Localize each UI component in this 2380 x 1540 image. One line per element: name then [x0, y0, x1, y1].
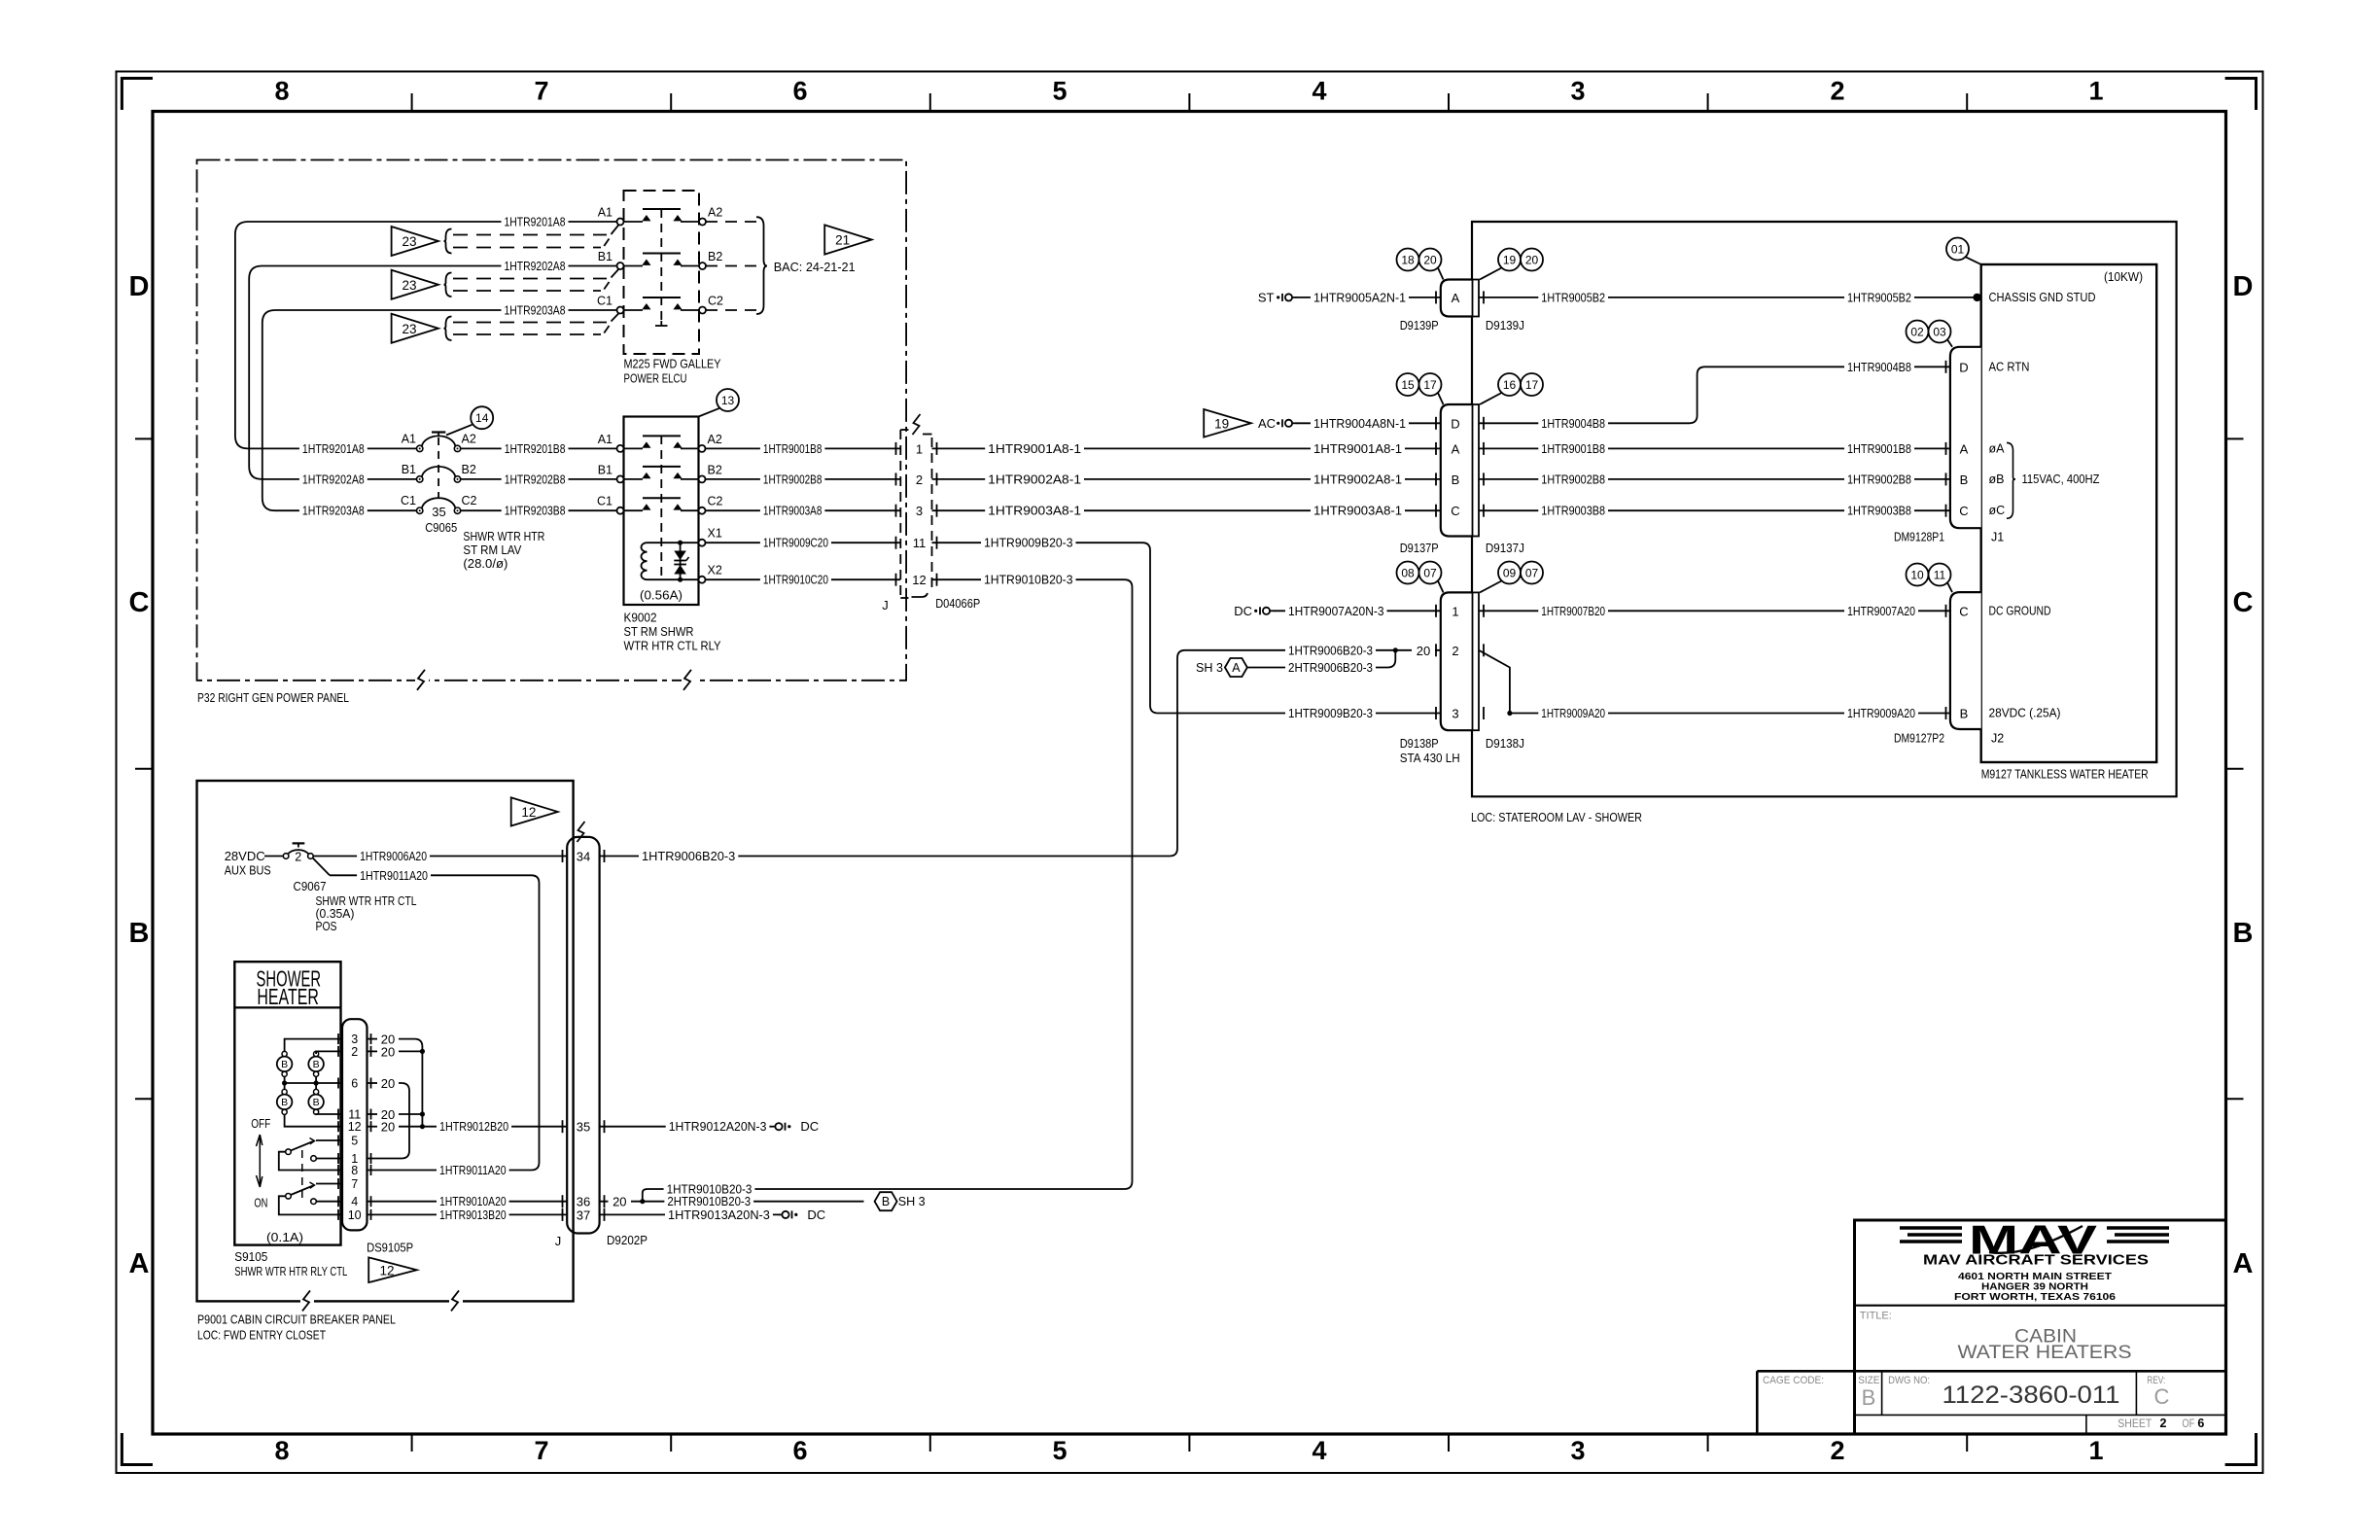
brace 115VAC 400HZ [2007, 442, 2100, 518]
svg-text:34: 34 [577, 850, 590, 864]
wire 1HTR9002B8 (D9137J B to heater phase B) [1479, 472, 1950, 487]
dashed wire M225 B2 to BAC bus [706, 265, 756, 267]
wire 2HTR9010B20-3 to flag B SH 3 [643, 1192, 926, 1210]
svg-text:1HTR9001A8-1: 1HTR9001A8-1 [1313, 441, 1402, 456]
svg-text:1HTR9009A20: 1HTR9009A20 [1541, 706, 1605, 720]
wire 1HTR9004A8N-1 (to D9137 D) [1296, 415, 1441, 431]
company address [1954, 1271, 2116, 1303]
brace for flag 23 (phase B) [444, 273, 452, 297]
svg-text:13: 13 [721, 394, 735, 407]
svg-text:5: 5 [1052, 77, 1067, 106]
svg-text:B2: B2 [708, 463, 722, 476]
svg-text:2: 2 [2160, 1417, 2167, 1430]
svg-text:X1: X1 [708, 527, 722, 541]
sheet-reference flag 12 (upper) [511, 797, 558, 825]
svg-text:14: 14 [475, 411, 489, 425]
svg-text:A: A [129, 1248, 150, 1279]
switch assembly SHOWER HEATER (box) [234, 962, 340, 1244]
svg-text:B: B [2233, 918, 2254, 949]
svg-text:P32 RIGHT GEN POWER PANEL: P32 RIGHT GEN POWER PANEL [197, 690, 349, 705]
svg-text:WATER HEATERS: WATER HEATERS [1958, 1343, 2132, 1363]
svg-text:OFF: OFF [251, 1116, 270, 1131]
M225 contact pole B1-B2 [598, 250, 723, 269]
wire 1HTR9005A2N-1 (to D9139 A) [1296, 290, 1441, 305]
svg-text:2: 2 [1830, 1436, 1844, 1465]
svg-text:1HTR9007A20: 1HTR9007A20 [1847, 604, 1915, 618]
switch gang dashed link [301, 1150, 303, 1198]
svg-text:STA 430 LH: STA 430 LH [1400, 751, 1460, 765]
svg-text:1HTR9006B20-3: 1HTR9006B20-3 [642, 849, 735, 863]
svg-text:B2: B2 [462, 463, 476, 476]
svg-text:MAV AIRCRAFT SERVICES: MAV AIRCRAFT SERVICES [1923, 1253, 2149, 1269]
callout circle 01 (heater) [1946, 238, 1981, 265]
svg-text:1HTR9002B8: 1HTR9002B8 [1847, 472, 1911, 486]
svg-text:4: 4 [1312, 77, 1326, 106]
svg-text:17: 17 [1525, 378, 1539, 392]
svg-text:1HTR9010B20-3: 1HTR9010B20-3 [984, 573, 1073, 587]
label BAC: 24-21-21 [774, 260, 856, 274]
sheet-reference flag 23 (phase C control) [392, 314, 438, 343]
sheet number SHEET 2 OF 6 [2117, 1417, 2204, 1430]
wire 1HTR9003B8 (D9137J C to heater phase C) [1479, 503, 1950, 518]
svg-text:B: B [1960, 472, 1969, 487]
svg-text:P9001 CABIN CIRCUIT BREAKER: P9001 CABIN CIRCUIT BREAKER PANEL [197, 1312, 396, 1327]
label M9127 TANKLESS WATER HEATER [1981, 767, 2149, 782]
svg-text:A: A [1452, 441, 1460, 456]
wire 1HTR9003A8 [706, 503, 901, 518]
wire 1HTR9002A8-1 (J pin2 to D9137 B) [932, 472, 1441, 487]
svg-text:øB: øB [1989, 472, 2005, 486]
svg-text:1HTR9201A8: 1HTR9201A8 [505, 215, 566, 229]
svg-text:1HTR9001B8: 1HTR9001B8 [1541, 441, 1605, 456]
toggle switch S9105 section 2 (pins 7/4/10) [279, 1182, 342, 1214]
svg-text:SH 3: SH 3 [898, 1194, 926, 1208]
svg-text:øA: øA [1989, 441, 2006, 455]
svg-text:ST RM LAV: ST RM LAV [463, 542, 521, 557]
svg-text:18: 18 [1401, 254, 1415, 267]
svg-text:A2: A2 [708, 206, 722, 220]
svg-text:D9202P: D9202P [607, 1233, 647, 1247]
svg-text:A2: A2 [708, 433, 722, 446]
connector D9139P/D9139J [1400, 280, 1524, 333]
wire 1HTR9013B20 (pin10 to pin37) [367, 1207, 568, 1222]
svg-text:OF: OF [2182, 1417, 2194, 1430]
svg-text:1HTR9002B8: 1HTR9002B8 [1541, 472, 1605, 486]
connector D9137P/D9137J [1400, 404, 1524, 555]
break symbol on P9001 lower edge [300, 1290, 314, 1312]
svg-text:1HTR9003B8: 1HTR9003B8 [1541, 504, 1605, 518]
indicator lamp left-bottom [277, 1089, 293, 1114]
svg-text:S9105: S9105 [234, 1249, 267, 1264]
DC shield termination [1234, 604, 1274, 618]
svg-text:CAGE CODE:: CAGE CODE: [1763, 1375, 1824, 1386]
dashed wire M225 C2 to BAC bus [706, 309, 756, 311]
svg-text:12: 12 [348, 1120, 362, 1134]
wire 1HTR9001B8 (D9137J A to heater phase A) [1479, 440, 1950, 456]
svg-text:1HTR9203A8: 1HTR9203A8 [302, 504, 365, 518]
wire 1HTR9202A8 loop (M225 B1 to C9065 B1) [249, 259, 616, 487]
label P9001 CABIN CIRCUIT BREAKER PANEL / LOC: FWD ENTRY CLOSET [197, 1312, 396, 1343]
wire 1HTR9006B20-3 (pin34 up to D9138 pin2 row) [600, 650, 1185, 864]
svg-text:20: 20 [612, 1195, 626, 1209]
svg-text:10: 10 [348, 1208, 362, 1222]
indicator lamp left-top [277, 1051, 293, 1076]
pin labels A1/A2 B1/B2 C1/C2 of C9065 [401, 432, 477, 507]
wire pin6 gauge 20 loop to pin1 [367, 1076, 410, 1159]
wire 1HTR9007B20 / 1HTR9007A20 (D9138J pin1 to heater DC GROUND) [1479, 603, 1950, 618]
K9002 contact pole B1-B2 [598, 463, 722, 482]
svg-text:AC RTN: AC RTN [1989, 360, 2030, 373]
svg-text:20: 20 [381, 1044, 395, 1059]
label LOC: STATEROOM LAV - SHOWER [1471, 810, 1642, 824]
label C9065 SHWR WTR HTR ST RM LAV (28.0/phase) [425, 520, 544, 571]
svg-text:8: 8 [274, 1436, 289, 1465]
svg-text:POWER ELCU: POWER ELCU [624, 371, 687, 386]
svg-text:23: 23 [402, 234, 416, 249]
wire 20 / junction at pin36 [600, 1194, 646, 1209]
svg-text:8: 8 [274, 77, 289, 106]
connector DS9105P (stadium) [342, 1019, 367, 1230]
svg-text:4: 4 [1312, 1436, 1326, 1465]
svg-text:C: C [1959, 604, 1968, 618]
svg-text:WTR HTR CTL RLY: WTR HTR CTL RLY [624, 639, 721, 653]
svg-text:B2: B2 [708, 250, 722, 263]
wire pin6 lamp midpoint bus [282, 1076, 342, 1089]
svg-text:1HTR9202A8: 1HTR9202A8 [505, 259, 566, 273]
sheet-reference flag 21 [824, 225, 871, 254]
sheet-reference flag 23 (phase B control) [392, 270, 438, 299]
svg-text:17: 17 [1423, 378, 1437, 392]
svg-text:2HTR9006B20-3: 2HTR9006B20-3 [1288, 660, 1373, 675]
svg-text:07: 07 [1525, 567, 1539, 580]
svg-text:23: 23 [402, 322, 416, 336]
wire pin2 gauge 20 to loop junction [367, 1044, 426, 1059]
M225 contact pole C1-C2 [597, 295, 723, 314]
drawing number 1122-3860-011 [1942, 1382, 2120, 1409]
svg-text:7: 7 [534, 77, 548, 106]
wire 2HTR9006B20-3 (joins 1HTR9006B20-3) [1247, 650, 1395, 676]
wire 1HTR9003A8-1 (J pin3 to D9137 C) [932, 503, 1441, 518]
callout circles 18 20 (D9139P) [1397, 249, 1444, 280]
connector plug DM9128P1 (heater J1) [1894, 347, 2004, 544]
svg-text:1: 1 [916, 441, 923, 456]
svg-text:10: 10 [1910, 569, 1924, 582]
label K9002 ST RM SHWR WTR HTR CTL RLY [624, 611, 721, 653]
svg-text:1HTR9002A8-1: 1HTR9002A8-1 [988, 472, 1081, 486]
M225 internal actuator dashed line and ground [655, 209, 668, 326]
svg-text:8: 8 [351, 1164, 358, 1177]
svg-text:1HTR9007B20: 1HTR9007B20 [1541, 604, 1605, 618]
svg-text:K9002: K9002 [624, 611, 657, 625]
wire 1HTR9202B8 [461, 472, 617, 487]
labels C9067 SHWR WTR HTR CTL (0.35A) POS [294, 879, 417, 933]
wire 1HTR9010B20-3 (J pin12 down to D9202P area) [756, 572, 1133, 1189]
svg-text:4: 4 [351, 1195, 358, 1208]
svg-text:2: 2 [1452, 644, 1458, 658]
K9002 actuator dashed line [660, 436, 662, 579]
svg-text:7: 7 [534, 1436, 548, 1465]
wire 1HTR9006A20 (C9067 to D9202P pin 34) [313, 849, 567, 864]
svg-text:A1: A1 [598, 206, 612, 220]
dashed control wires to M225 switch actuator (phase C) [453, 314, 618, 335]
svg-text:C1: C1 [597, 495, 612, 508]
wire 1HTR9009A20 (D9138J pin3 to heater 28VDC) [1510, 706, 1950, 721]
svg-text:AC: AC [1258, 416, 1276, 431]
svg-text:1HTR9002B8: 1HTR9002B8 [763, 472, 822, 486]
svg-text:115VAC, 400HZ: 115VAC, 400HZ [2022, 472, 2100, 486]
svg-text:16: 16 [1503, 378, 1517, 392]
svg-text:1HTR9013A20N-3: 1HTR9013A20N-3 [668, 1207, 770, 1222]
svg-text:1HTR9009A20: 1HTR9009A20 [1847, 706, 1915, 720]
svg-text:3: 3 [1570, 77, 1585, 106]
wire 1HTR9203A8 loop (M225 C1 to C9065 C1) [262, 302, 617, 518]
svg-text:21: 21 [835, 233, 850, 248]
title block [1757, 1220, 2225, 1434]
svg-text:1HTR9001B8: 1HTR9001B8 [763, 441, 822, 456]
svg-text:SH 3: SH 3 [1196, 660, 1223, 675]
svg-text:1HTR9201A8: 1HTR9201A8 [302, 441, 365, 456]
svg-text:J2: J2 [1991, 732, 2004, 746]
svg-text:B: B [1452, 472, 1460, 487]
svg-text:C2: C2 [708, 295, 723, 308]
svg-text:DC GROUND: DC GROUND [1989, 604, 2051, 617]
svg-text:B: B [281, 1097, 288, 1108]
wire 1HTR9009B20-3 (J pin11 down to D9138 pin3) [932, 535, 1441, 720]
svg-text:1HTR9001B8: 1HTR9001B8 [1847, 441, 1911, 456]
svg-text:3: 3 [1570, 1436, 1585, 1465]
wire 1HTR9005B2 (D9139J to chassis gnd stud) [1479, 290, 1981, 305]
svg-text:ST RM SHWR: ST RM SHWR [624, 624, 694, 639]
svg-text:DWG NO:: DWG NO: [1888, 1375, 1930, 1386]
svg-text:AUX BUS: AUX BUS [225, 862, 271, 877]
brace for flag 23 (phase C) [444, 317, 452, 341]
svg-text:1: 1 [2088, 1436, 2103, 1465]
svg-text:3: 3 [916, 504, 923, 518]
svg-text:1HTR9009B20-3: 1HTR9009B20-3 [1288, 706, 1373, 720]
svg-text:11: 11 [1934, 569, 1946, 582]
svg-text:D04066P: D04066P [935, 596, 980, 611]
callout circle 14 (C9065) [446, 406, 493, 435]
svg-text:LOC: FWD ENTRY CLOSET: LOC: FWD ENTRY CLOSET [197, 1328, 326, 1343]
svg-text:(0.56A): (0.56A) [640, 588, 682, 603]
wire 1HTR9004B8 (D9137J D to heater AC RTN) [1479, 359, 1950, 431]
svg-text:1HTR9002A8-1: 1HTR9002A8-1 [1313, 472, 1402, 486]
svg-text:1HTR9006A20: 1HTR9006A20 [360, 849, 427, 863]
svg-text:12: 12 [379, 1263, 394, 1277]
svg-text:B: B [1960, 707, 1969, 721]
svg-text:1HTR9004B8: 1HTR9004B8 [1847, 360, 1911, 374]
svg-text:B: B [129, 918, 150, 949]
svg-text:1HTR9004A8N-1: 1HTR9004A8N-1 [1313, 416, 1406, 431]
relay K9002 ST RM SHWR WTR HTR CTL RLY (box) [624, 417, 699, 606]
label DS9105P [367, 1241, 413, 1255]
svg-text:1HTR9010C20: 1HTR9010C20 [763, 573, 828, 587]
svg-text:M9127 TANKLESS WATER HEATER: M9127 TANKLESS WATER HEATER [1981, 767, 2149, 782]
svg-text:øC: øC [1989, 504, 2006, 517]
svg-text:BAC: 24-21-21: BAC: 24-21-21 [774, 260, 856, 274]
connector D9138P/D9138J (STA 430 LH) [1400, 592, 1524, 765]
svg-text:11: 11 [913, 536, 927, 550]
svg-text:J: J [882, 598, 889, 612]
svg-text:D: D [1959, 360, 1968, 374]
sheet-reference flag 12 (lower) [368, 1257, 417, 1282]
svg-text:1HTR9201B8: 1HTR9201B8 [505, 441, 566, 456]
svg-text:TITLE:: TITLE: [1860, 1311, 1892, 1322]
svg-text:C: C [2154, 1384, 2170, 1409]
dashed control wires to M225 switch actuator (phase A) [453, 226, 618, 248]
flag 19 with AC shield termination [1204, 409, 1296, 437]
svg-text:C1: C1 [401, 494, 416, 507]
svg-text:FORT WORTH, TEXAS 76106: FORT WORTH, TEXAS 76106 [1954, 1291, 2116, 1303]
svg-text:C9067: C9067 [294, 879, 327, 893]
K9002 contact pole C1-C2 [597, 495, 723, 514]
wire 1HTR9010C20 [706, 572, 901, 587]
svg-text:1HTR9004B8: 1HTR9004B8 [1541, 416, 1605, 431]
wire 1HTR9011A20 (C9067 to DS9105P pin 8) [330, 867, 540, 1177]
circuit breaker C9067 (0.35A) [283, 843, 330, 875]
svg-text:1122-3860-011: 1122-3860-011 [1942, 1382, 2120, 1409]
wire pin3 to left lamps [285, 1039, 342, 1052]
svg-text:1HTR9009B20-3: 1HTR9009B20-3 [984, 536, 1073, 550]
svg-text:D: D [1451, 416, 1459, 431]
labels J and D9202P [555, 1233, 647, 1248]
svg-text:35: 35 [432, 505, 445, 519]
svg-text:B: B [882, 1195, 890, 1208]
svg-text:23: 23 [402, 278, 416, 293]
svg-text:M225 FWD GALLEY: M225 FWD GALLEY [624, 357, 721, 371]
svg-text:1HTR9003A8-1: 1HTR9003A8-1 [1313, 504, 1402, 518]
svg-text:(0.1A): (0.1A) [266, 1230, 303, 1244]
wire 1HTR9002B8 [706, 472, 901, 487]
K9002 suppression diode pair [674, 541, 688, 582]
svg-text:5: 5 [351, 1135, 358, 1148]
svg-text:1HTR9203A8: 1HTR9203A8 [505, 303, 566, 318]
svg-text:2: 2 [916, 472, 923, 487]
svg-text:X2: X2 [708, 564, 722, 577]
svg-text:CHASSIS GND STUD: CHASSIS GND STUD [1989, 291, 2096, 304]
svg-text:7: 7 [351, 1177, 358, 1191]
svg-text:1HTR9007A20N-3: 1HTR9007A20N-3 [1288, 604, 1384, 618]
chassis ground stud [1973, 291, 2095, 304]
svg-text:12: 12 [912, 573, 926, 587]
svg-text:6: 6 [792, 77, 807, 106]
svg-text:1HTR9003B8: 1HTR9003B8 [1847, 504, 1911, 518]
svg-text:D9139P: D9139P [1400, 318, 1439, 332]
svg-text:1HTR9012A20N-3: 1HTR9012A20N-3 [669, 1119, 767, 1134]
svg-text:19: 19 [1214, 416, 1229, 431]
svg-text:1HTR9013B20: 1HTR9013B20 [439, 1207, 507, 1222]
svg-text:D9138J: D9138J [1486, 736, 1524, 751]
svg-text:1HTR9011A20: 1HTR9011A20 [360, 868, 428, 883]
break symbol at D9202P top [577, 822, 585, 842]
callout circles 02 03 (DM9128P1) [1907, 321, 1953, 347]
brace BAC bus [756, 217, 767, 314]
svg-text:J: J [555, 1234, 562, 1248]
svg-text:1HTR9009C20: 1HTR9009C20 [763, 536, 828, 550]
svg-text:37: 37 [577, 1207, 590, 1222]
svg-text:A1: A1 [402, 432, 416, 445]
svg-text:HEATER: HEATER [257, 984, 319, 1009]
svg-text:20: 20 [381, 1076, 395, 1091]
unit M9127 TANKLESS WATER HEATER (10KW) [1981, 264, 2157, 762]
D9202P pin numbers 34 35 36 37 [563, 850, 605, 1223]
svg-text:(28.0/ø): (28.0/ø) [463, 556, 507, 571]
panel P32 boundary (dash-dot box) [197, 160, 907, 681]
wire 1HTR9012A20N-3 with DC shield (pin35) [600, 1119, 820, 1135]
svg-text:1HTR9005A2N-1: 1HTR9005A2N-1 [1313, 290, 1406, 304]
bus label 28VDC AUX BUS [225, 849, 284, 877]
wire right lamps to pin11 [316, 1113, 342, 1115]
dashed control wires to M225 switch actuator (phase B) [453, 269, 618, 291]
svg-text:ON: ON [254, 1196, 267, 1210]
svg-text:1HTR9003A8: 1HTR9003A8 [763, 504, 822, 518]
svg-text:J1: J1 [1991, 531, 2004, 544]
svg-text:B1: B1 [598, 250, 612, 263]
svg-text:C1: C1 [597, 295, 612, 308]
svg-text:20: 20 [1423, 254, 1437, 267]
svg-text:2: 2 [351, 1045, 358, 1059]
wire 1HTR9001B8 [706, 440, 901, 456]
svg-text:1HTR9203B8: 1HTR9203B8 [505, 504, 566, 518]
svg-text:B1: B1 [598, 463, 612, 476]
svg-text:2: 2 [295, 851, 301, 864]
svg-text:SIZE: SIZE [1858, 1375, 1879, 1386]
OFF / ON markings with travel arrow [251, 1116, 270, 1209]
callout circles 09 07 (D9138J) [1480, 562, 1543, 593]
junction dot on 1HTR9006B20-3 [1393, 647, 1398, 652]
dashed wire M225 A2 to BAC bus [706, 221, 756, 223]
MAV logo [1900, 1217, 2169, 1263]
K9002 coil [642, 527, 722, 583]
label M225 FWD GALLEY POWER ELCU [624, 357, 721, 386]
indicator lamp right-top [308, 1051, 324, 1076]
svg-text:1HTR9006B20-3: 1HTR9006B20-3 [1288, 643, 1373, 657]
label (0.56A) [640, 588, 682, 603]
break symbol on P9001 lower edge (right) [449, 1290, 463, 1312]
svg-text:D9138P: D9138P [1400, 736, 1439, 751]
svg-text:DC: DC [800, 1119, 819, 1134]
K9002 contact pole A1-A2 [598, 433, 722, 452]
svg-text:28VDC (.25A): 28VDC (.25A) [1989, 707, 2061, 720]
callout circles 16 17 (D9137J) [1480, 373, 1543, 404]
wire 1HTR9203B8 [461, 503, 617, 518]
indicator lamp right-bottom [308, 1089, 324, 1114]
wire 1HTR9009C20 [706, 535, 901, 550]
svg-text:1HTR9005B2: 1HTR9005B2 [1541, 290, 1605, 304]
connector plug DM9127P2 (heater J2) [1894, 592, 2004, 745]
label P32 RIGHT GEN POWER PANEL [197, 690, 349, 705]
wire pin12 gauge 20 / 1HTR9012B20 to pin35 [367, 1119, 568, 1135]
svg-text:6: 6 [351, 1077, 358, 1091]
svg-text:20: 20 [381, 1120, 395, 1135]
connector D9202P (stadium) with panel edge [567, 837, 599, 1234]
svg-text:3: 3 [1452, 707, 1458, 721]
svg-text:C2: C2 [708, 495, 723, 508]
svg-text:D9137P: D9137P [1400, 541, 1439, 555]
wire 1HTR9010A20 (pin4 to pin36) [367, 1194, 568, 1209]
connector D04066P (J) dashed bracket [900, 414, 931, 598]
svg-text:D9137J: D9137J [1486, 541, 1524, 555]
flag SH 3 A (hexagon) [1196, 658, 1247, 677]
svg-text:1HTR9012B20: 1HTR9012B20 [439, 1119, 508, 1134]
wire 1HTR9013A20N-3 with DC shield (pin37) [600, 1207, 826, 1222]
M225 contact pole A1-A2 [598, 206, 723, 226]
svg-text:C: C [2233, 587, 2254, 618]
svg-text:6: 6 [792, 1436, 807, 1465]
svg-text:A: A [1960, 441, 1969, 456]
callout circles 19 20 (D9139J) [1480, 249, 1543, 280]
svg-text:1: 1 [2088, 77, 2103, 106]
